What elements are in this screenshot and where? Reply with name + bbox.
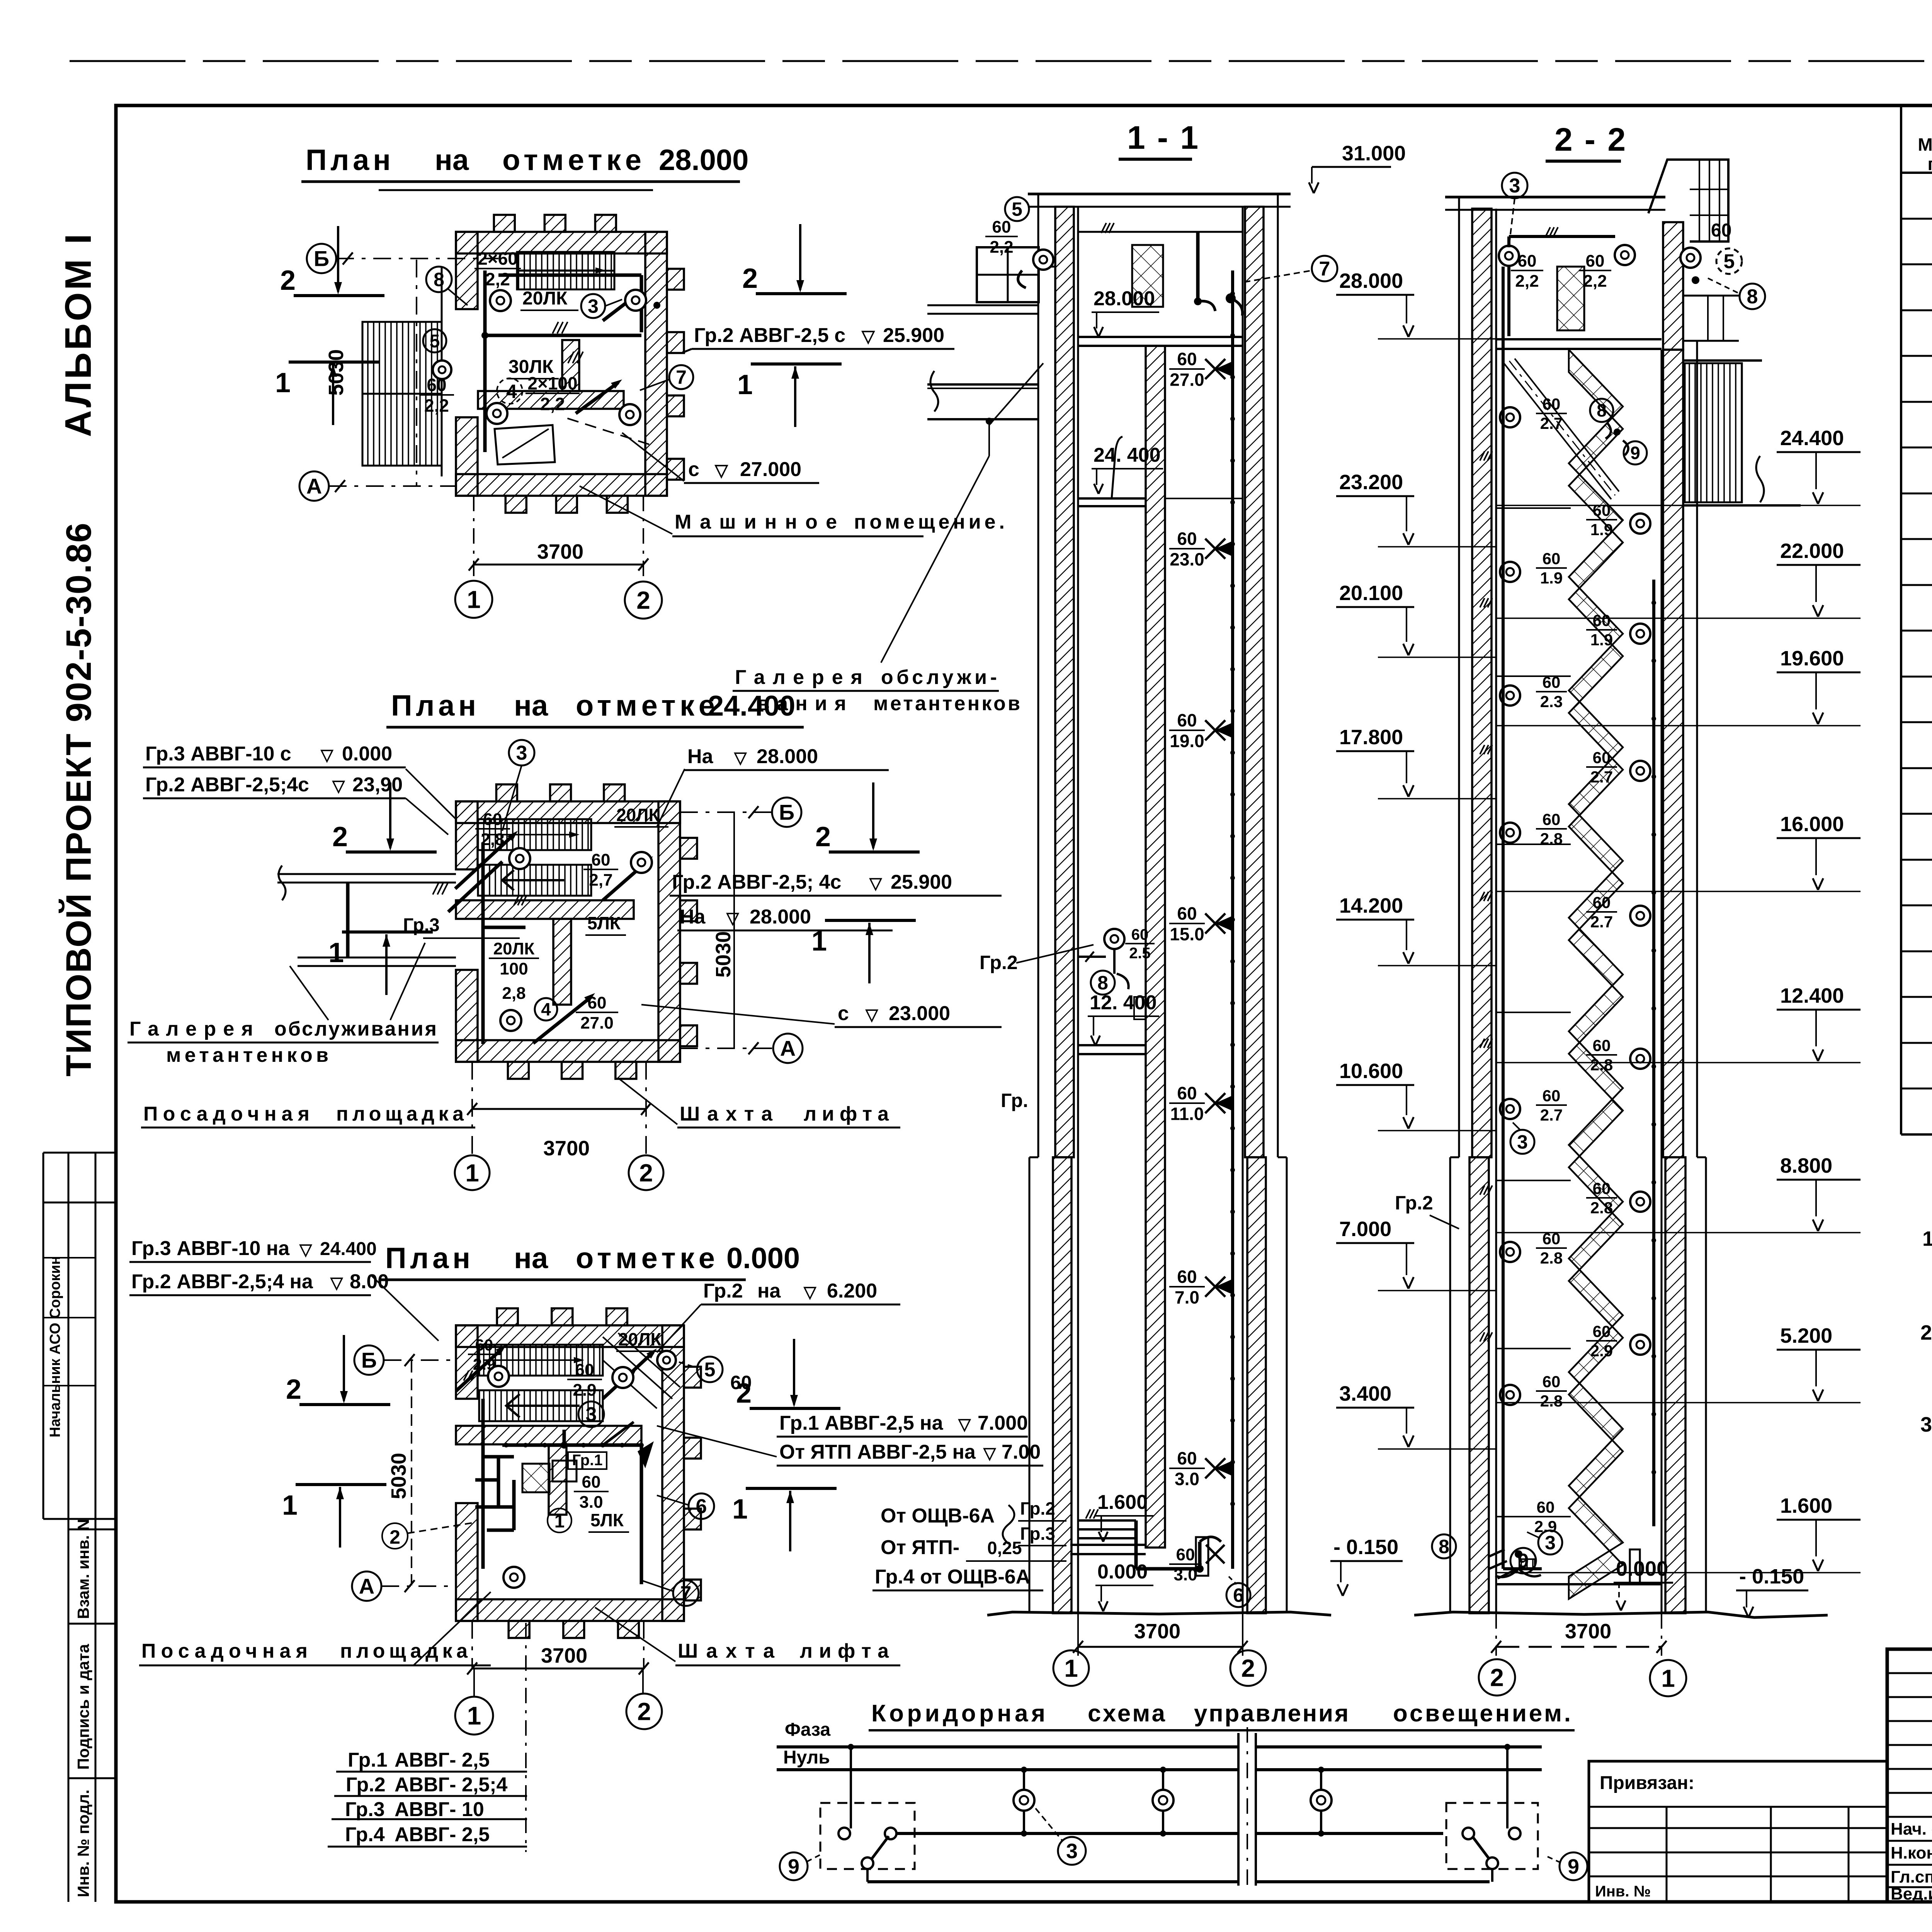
svg-text:60: 60 bbox=[992, 218, 1011, 236]
svg-text:60: 60 bbox=[1543, 1372, 1561, 1391]
svg-text:3: 3 bbox=[1517, 1131, 1528, 1153]
svg-text:60: 60 bbox=[1593, 1322, 1611, 1340]
svg-text:5030: 5030 bbox=[712, 931, 735, 978]
svg-text:Гр.: Гр. bbox=[1001, 1090, 1028, 1111]
svg-text:АВВГ- 2,5;4: АВВГ- 2,5;4 bbox=[395, 1774, 508, 1796]
svg-text:Инв. №: Инв. № bbox=[1595, 1883, 1651, 1900]
svg-text:60: 60 bbox=[588, 993, 607, 1012]
svg-text:60: 60 bbox=[1543, 673, 1561, 691]
svg-text:6.200: 6.200 bbox=[827, 1280, 877, 1302]
svg-text:25.900: 25.900 bbox=[891, 871, 952, 893]
svg-text:7.000: 7.000 bbox=[978, 1412, 1028, 1434]
svg-text:Гр.3 АВВГ-10 на: Гр.3 АВВГ-10 на bbox=[131, 1237, 290, 1260]
svg-text:2×100: 2×100 bbox=[527, 373, 577, 393]
svg-text:20ЛК: 20ЛК bbox=[493, 939, 535, 958]
svg-text:2,2: 2,2 bbox=[485, 269, 510, 289]
svg-text:10.600: 10.600 bbox=[1339, 1060, 1403, 1083]
svg-text:▽: ▽ bbox=[958, 1415, 971, 1433]
svg-text:управления: управления bbox=[1194, 1700, 1349, 1727]
svg-text:5.200: 5.200 bbox=[1780, 1324, 1832, 1347]
svg-text:2: 2 bbox=[742, 263, 758, 294]
svg-text:60: 60 bbox=[1177, 529, 1197, 549]
svg-text:0.000: 0.000 bbox=[1097, 1561, 1148, 1583]
svg-text:27.0: 27.0 bbox=[1170, 370, 1204, 390]
svg-text:Гр.2: Гр.2 bbox=[346, 1774, 386, 1796]
svg-text:2,2: 2,2 bbox=[990, 238, 1013, 257]
svg-text:2.7: 2.7 bbox=[1590, 913, 1613, 931]
svg-text:▽: ▽ bbox=[714, 461, 728, 480]
svg-text:3.400: 3.400 bbox=[1339, 1382, 1391, 1405]
svg-text:метантенков: метантенков bbox=[873, 692, 1020, 715]
svg-text:Б: Б bbox=[361, 1348, 377, 1372]
svg-text:28.000: 28.000 bbox=[1094, 287, 1155, 310]
svg-text:3.0: 3.0 bbox=[1173, 1565, 1197, 1584]
svg-text:АВВГ- 10: АВВГ- 10 bbox=[395, 1798, 484, 1821]
svg-text:2: 2 bbox=[815, 821, 831, 852]
svg-text:3700: 3700 bbox=[1565, 1620, 1611, 1643]
svg-text:7: 7 bbox=[680, 1582, 692, 1605]
svg-text:23.0: 23.0 bbox=[1170, 549, 1204, 570]
svg-text:20ЛК: 20ЛК bbox=[522, 288, 568, 309]
svg-text:3700: 3700 bbox=[543, 1137, 590, 1160]
svg-text:27.0: 27.0 bbox=[580, 1014, 614, 1032]
svg-text:19.600: 19.600 bbox=[1780, 647, 1844, 670]
svg-text:23.000: 23.000 bbox=[889, 1002, 950, 1025]
svg-text:1: 1 bbox=[467, 585, 481, 613]
svg-text:▽: ▽ bbox=[299, 1240, 313, 1259]
svg-text:2: 2 bbox=[280, 265, 296, 296]
svg-text:Взам. инв. N: Взам. инв. N bbox=[74, 1519, 92, 1619]
svg-text:22.000: 22.000 bbox=[1780, 539, 1844, 563]
svg-text:2.3: 2.3 bbox=[1540, 692, 1563, 711]
svg-text:1: 1 bbox=[737, 369, 753, 400]
svg-text:25.900: 25.900 bbox=[883, 324, 944, 347]
svg-text:1.: 1. bbox=[1922, 1227, 1932, 1250]
svg-text:2: 2 bbox=[389, 1526, 400, 1548]
svg-text:3.: 3. bbox=[1920, 1413, 1932, 1436]
svg-text:60: 60 bbox=[475, 1336, 493, 1354]
svg-text:8: 8 bbox=[1597, 400, 1607, 420]
svg-text:Привязан:: Привязан: bbox=[1600, 1773, 1694, 1793]
svg-text:2,8: 2,8 bbox=[502, 984, 526, 1003]
svg-text:12. 400: 12. 400 bbox=[1090, 992, 1157, 1014]
svg-text:14.200: 14.200 bbox=[1339, 894, 1403, 917]
svg-text:Гр.1 АВВГ-2,5 на: Гр.1 АВВГ-2,5 на bbox=[779, 1412, 944, 1434]
svg-text:2: 2 bbox=[636, 586, 650, 614]
svg-text:60: 60 bbox=[427, 375, 446, 395]
svg-text:5030: 5030 bbox=[325, 349, 348, 396]
svg-text:60: 60 bbox=[1177, 1083, 1197, 1103]
svg-text:1.9: 1.9 bbox=[1540, 569, 1563, 587]
svg-text:1: 1 bbox=[328, 937, 344, 968]
svg-text:Б: Б bbox=[779, 800, 794, 825]
svg-text:с: с bbox=[688, 458, 699, 481]
svg-text:2,2: 2,2 bbox=[540, 394, 565, 414]
svg-text:Гр.3: Гр.3 bbox=[1020, 1524, 1055, 1544]
svg-text:7: 7 bbox=[1319, 258, 1330, 280]
svg-text:60: 60 bbox=[483, 810, 502, 829]
equipment and materials table bbox=[1900, 105, 1902, 1134]
svg-text:3700: 3700 bbox=[541, 1644, 587, 1667]
svg-text:Гр.3: Гр.3 bbox=[345, 1798, 385, 1821]
svg-text:0.000: 0.000 bbox=[342, 743, 392, 765]
svg-text:5030: 5030 bbox=[387, 1453, 410, 1499]
svg-text:2: 2 bbox=[736, 1378, 752, 1409]
svg-text:АЛЬБОМ I: АЛЬБОМ I bbox=[58, 231, 99, 437]
svg-text:60: 60 bbox=[1543, 549, 1561, 568]
svg-text:▽: ▽ bbox=[726, 909, 740, 927]
svg-text:60: 60 bbox=[1593, 893, 1611, 912]
svg-text:Б: Б bbox=[314, 247, 329, 271]
svg-text:А: А bbox=[306, 474, 322, 498]
svg-text:2: 2 bbox=[286, 1374, 301, 1405]
svg-text:2.7: 2.7 bbox=[1590, 768, 1613, 786]
svg-text:Гр.2 АВВГ-2,5;4 на: Гр.2 АВВГ-2,5;4 на bbox=[131, 1270, 313, 1293]
svg-text:1.600: 1.600 bbox=[1780, 1494, 1832, 1517]
svg-text:5: 5 bbox=[704, 1359, 716, 1381]
svg-text:Гр.4: Гр.4 bbox=[345, 1823, 385, 1846]
svg-text:16.000: 16.000 bbox=[1780, 813, 1844, 836]
svg-text:- 0.150: - 0.150 bbox=[1333, 1536, 1398, 1559]
svg-text:План: План bbox=[306, 144, 391, 177]
svg-text:2 - 2: 2 - 2 bbox=[1554, 121, 1627, 158]
svg-text:2,8: 2,8 bbox=[481, 830, 504, 849]
svg-text:2.9: 2.9 bbox=[1590, 1342, 1613, 1360]
svg-text:Гр.4 от ОЩВ-6А: Гр.4 от ОЩВ-6А bbox=[875, 1566, 1030, 1588]
svg-text:60: 60 bbox=[1518, 252, 1537, 270]
svg-text:60: 60 bbox=[1593, 611, 1611, 629]
svg-text:28.000: 28.000 bbox=[757, 745, 818, 768]
svg-text:План: План bbox=[391, 689, 476, 722]
svg-text:60: 60 bbox=[1593, 1036, 1611, 1054]
svg-text:на: на bbox=[757, 1280, 781, 1302]
svg-text:60: 60 bbox=[1176, 1545, 1195, 1564]
svg-text:0.000: 0.000 bbox=[1616, 1557, 1668, 1580]
svg-text:Гл.спец.: Гл.спец. bbox=[1891, 1867, 1932, 1886]
svg-text:6: 6 bbox=[696, 1495, 707, 1518]
svg-text:От ОЩВ-6А: От ОЩВ-6А bbox=[881, 1505, 995, 1527]
svg-text:24.400: 24.400 bbox=[1780, 427, 1844, 450]
svg-text:- 0.150: - 0.150 bbox=[1739, 1565, 1804, 1588]
svg-text:60: 60 bbox=[592, 850, 611, 869]
svg-text:▽: ▽ bbox=[320, 746, 334, 764]
svg-text:8: 8 bbox=[1747, 286, 1758, 308]
svg-text:60: 60 bbox=[1177, 1448, 1197, 1468]
svg-text:поз.: поз. bbox=[1928, 154, 1932, 174]
svg-text:1: 1 bbox=[465, 1159, 479, 1187]
svg-text:Вед.инж: Вед.инж bbox=[1891, 1884, 1932, 1903]
svg-text:▽: ▽ bbox=[734, 748, 747, 767]
svg-text:Гр.1: Гр.1 bbox=[348, 1749, 388, 1771]
title block bbox=[1887, 1649, 1932, 1902]
svg-text:60: 60 bbox=[1177, 710, 1197, 730]
wire bbox=[70, 60, 1932, 62]
svg-text:на: на bbox=[514, 1242, 548, 1275]
svg-text:2: 2 bbox=[639, 1159, 653, 1187]
svg-text:2.8: 2.8 bbox=[1590, 1199, 1613, 1217]
svg-text:2.: 2. bbox=[1920, 1321, 1932, 1344]
svg-text:20ЛК: 20ЛК bbox=[618, 1329, 662, 1349]
svg-text:7.00: 7.00 bbox=[1002, 1441, 1041, 1463]
svg-text:2.7: 2.7 bbox=[1540, 414, 1563, 432]
svg-text:9: 9 bbox=[788, 1855, 799, 1878]
svg-text:24.400: 24.400 bbox=[708, 690, 795, 722]
svg-text:▽: ▽ bbox=[803, 1283, 817, 1301]
svg-text:2.5: 2.5 bbox=[1129, 945, 1151, 962]
svg-text:8.00: 8.00 bbox=[350, 1270, 389, 1293]
svg-text:7.000: 7.000 bbox=[1339, 1218, 1391, 1241]
svg-text:31.000: 31.000 bbox=[1342, 142, 1406, 165]
svg-text:1: 1 bbox=[1064, 1654, 1078, 1682]
svg-text:2.8: 2.8 bbox=[1540, 1392, 1563, 1410]
svg-text:60: 60 bbox=[1177, 903, 1197, 923]
svg-text:3: 3 bbox=[1509, 175, 1520, 197]
svg-text:2: 2 bbox=[1490, 1663, 1504, 1691]
svg-text:3: 3 bbox=[588, 296, 599, 317]
svg-text:60: 60 bbox=[1543, 395, 1561, 413]
svg-text:2.8: 2.8 bbox=[1540, 830, 1563, 848]
svg-text:2.8: 2.8 bbox=[1590, 1056, 1613, 1074]
svg-text:15.0: 15.0 bbox=[1170, 924, 1204, 944]
svg-text:1.9: 1.9 bbox=[1590, 520, 1613, 539]
svg-text:обслужи-: обслужи- bbox=[881, 666, 997, 689]
svg-text:АВВГ- 2,5: АВВГ- 2,5 bbox=[395, 1749, 490, 1771]
svg-text:схема: схема bbox=[1088, 1700, 1165, 1727]
svg-text:60: 60 bbox=[1131, 926, 1149, 943]
svg-text:3: 3 bbox=[1066, 1840, 1078, 1863]
svg-text:1: 1 bbox=[732, 1494, 748, 1525]
svg-text:24.400: 24.400 bbox=[320, 1239, 377, 1259]
svg-text:Гр.2: Гр.2 bbox=[1395, 1192, 1433, 1214]
svg-text:на: на bbox=[435, 144, 469, 177]
svg-text:2: 2 bbox=[1241, 1654, 1255, 1682]
svg-text:20ЛК: 20ЛК bbox=[616, 805, 660, 825]
svg-text:с: с bbox=[838, 1002, 849, 1025]
svg-text:2.9: 2.9 bbox=[473, 1355, 495, 1373]
svg-text:3700: 3700 bbox=[1134, 1620, 1180, 1643]
svg-text:60: 60 bbox=[1177, 1267, 1197, 1287]
svg-text:ТИПОВОЙ ПРОЕКТ 902-5-30.86: ТИПОВОЙ ПРОЕКТ 902-5-30.86 bbox=[58, 522, 99, 1077]
svg-text:2.8: 2.8 bbox=[1540, 1249, 1563, 1267]
svg-text:4: 4 bbox=[541, 999, 551, 1019]
svg-text:4: 4 bbox=[506, 381, 517, 402]
svg-text:19.0: 19.0 bbox=[1170, 731, 1204, 751]
svg-text:А: А bbox=[359, 1574, 374, 1599]
svg-text:2,2: 2,2 bbox=[1515, 272, 1539, 291]
svg-text:20.100: 20.100 bbox=[1339, 582, 1403, 605]
svg-text:5ЛК: 5ЛК bbox=[590, 1510, 624, 1530]
svg-text:23,90: 23,90 bbox=[352, 774, 403, 796]
svg-text:3.0: 3.0 bbox=[579, 1493, 603, 1512]
svg-text:5: 5 bbox=[430, 331, 440, 352]
svg-text:1: 1 bbox=[811, 926, 827, 957]
svg-text:2: 2 bbox=[637, 1697, 651, 1725]
svg-text:АВВГ- 2,5: АВВГ- 2,5 bbox=[395, 1823, 490, 1846]
svg-text:▽: ▽ bbox=[861, 327, 875, 346]
svg-text:освещением.: освещением. bbox=[1393, 1700, 1571, 1727]
svg-text:28.000: 28.000 bbox=[659, 144, 748, 177]
svg-text:60: 60 bbox=[1177, 349, 1197, 369]
svg-text:Подпись и дата: Подпись и дата bbox=[74, 1644, 92, 1770]
svg-text:8: 8 bbox=[1097, 972, 1108, 994]
svg-text:От ЯТП АВВГ-2,5 на: От ЯТП АВВГ-2,5 на bbox=[779, 1441, 976, 1463]
svg-text:От ЯТП-: От ЯТП- bbox=[881, 1536, 959, 1559]
svg-text:5: 5 bbox=[1724, 250, 1735, 273]
svg-text:3.0: 3.0 bbox=[1175, 1469, 1199, 1489]
svg-text:1: 1 bbox=[554, 1511, 565, 1532]
svg-text:0.000: 0.000 bbox=[726, 1242, 800, 1275]
svg-text:Н.контр: Н.контр bbox=[1891, 1844, 1932, 1862]
svg-text:1.9: 1.9 bbox=[1590, 631, 1613, 649]
svg-text:17.800: 17.800 bbox=[1339, 726, 1403, 749]
svg-text:100: 100 bbox=[500, 959, 528, 978]
svg-text:8.800: 8.800 bbox=[1780, 1154, 1832, 1177]
svg-text:Гр.2: Гр.2 bbox=[980, 952, 1018, 973]
svg-text:Гр.1: Гр.1 bbox=[572, 1452, 603, 1469]
svg-text:12.400: 12.400 bbox=[1780, 984, 1844, 1007]
svg-text:План: План bbox=[385, 1242, 470, 1275]
svg-text:Начальник АСО Сорокин: Начальник АСО Сорокин bbox=[47, 1256, 63, 1437]
svg-text:На: На bbox=[687, 745, 714, 768]
svg-text:Гр.2: Гр.2 bbox=[1020, 1498, 1055, 1519]
svg-text:24. 400: 24. 400 bbox=[1094, 444, 1161, 466]
svg-text:7: 7 bbox=[676, 367, 687, 388]
svg-text:площадка: площадка bbox=[336, 1103, 464, 1125]
svg-text:2: 2 bbox=[332, 821, 348, 852]
svg-text:на: на bbox=[514, 689, 548, 722]
svg-text:метантенков: метантенков bbox=[166, 1044, 328, 1066]
svg-text:Гр.2: Гр.2 bbox=[703, 1280, 743, 1302]
svg-text:60: 60 bbox=[1593, 1179, 1611, 1197]
svg-text:Нач. отд: Нач. отд bbox=[1891, 1820, 1932, 1838]
svg-text:Гр.3 АВВГ-10 с: Гр.3 АВВГ-10 с bbox=[145, 743, 291, 765]
left sidebar stamp columns bbox=[43, 1153, 44, 1519]
svg-text:27.000: 27.000 bbox=[740, 458, 801, 481]
svg-text:Марка: Марка bbox=[1918, 134, 1932, 155]
svg-text:▽: ▽ bbox=[865, 1005, 879, 1024]
svg-text:60: 60 bbox=[575, 1361, 594, 1379]
svg-text:Нуль: Нуль bbox=[783, 1747, 830, 1768]
svg-text:▽: ▽ bbox=[332, 777, 345, 795]
svg-text:2,2: 2,2 bbox=[1583, 272, 1607, 291]
svg-text:60: 60 bbox=[1711, 220, 1731, 241]
svg-text:60: 60 bbox=[1537, 1498, 1555, 1516]
svg-text:2.7: 2.7 bbox=[1540, 1106, 1563, 1124]
svg-text:28.000: 28.000 bbox=[1339, 269, 1403, 293]
svg-text:Инв. № подл.: Инв. № подл. bbox=[74, 1789, 92, 1897]
svg-text:8: 8 bbox=[1439, 1536, 1449, 1558]
svg-text:5: 5 bbox=[1012, 199, 1022, 220]
svg-text:▽: ▽ bbox=[983, 1444, 997, 1462]
svg-text:1: 1 bbox=[467, 1701, 481, 1730]
svg-text:2,2: 2,2 bbox=[424, 396, 449, 416]
svg-text:Гр.2 АВВГ-2,5 с: Гр.2 АВВГ-2,5 с bbox=[694, 324, 845, 347]
svg-text:Гр.2 АВВГ-2,5;4с: Гр.2 АВВГ-2,5;4с bbox=[145, 774, 309, 796]
svg-text:9: 9 bbox=[1630, 443, 1640, 463]
svg-text:60: 60 bbox=[582, 1473, 601, 1492]
svg-text:обслуживания: обслуживания bbox=[274, 1018, 437, 1040]
svg-text:11.0: 11.0 bbox=[1170, 1104, 1204, 1124]
svg-text:3: 3 bbox=[1545, 1532, 1556, 1554]
svg-text:8: 8 bbox=[434, 269, 444, 291]
svg-text:28.000: 28.000 bbox=[750, 906, 811, 928]
svg-text:3: 3 bbox=[586, 1403, 597, 1426]
svg-text:60: 60 bbox=[1586, 252, 1605, 270]
svg-text:1: 1 bbox=[282, 1490, 298, 1521]
svg-text:3: 3 bbox=[516, 742, 527, 764]
svg-text:площадка: площадка bbox=[340, 1640, 468, 1662]
svg-text:1: 1 bbox=[275, 367, 291, 398]
svg-text:5ЛК: 5ЛК bbox=[587, 913, 621, 933]
svg-text:1 - 1: 1 - 1 bbox=[1127, 119, 1200, 156]
svg-text:7.0: 7.0 bbox=[1175, 1287, 1199, 1308]
svg-text:0,25: 0,25 bbox=[987, 1538, 1022, 1558]
svg-text:23.200: 23.200 bbox=[1339, 471, 1403, 494]
svg-text:60: 60 bbox=[1543, 810, 1561, 828]
svg-text:1.600: 1.600 bbox=[1097, 1491, 1148, 1514]
svg-text:А: А bbox=[780, 1036, 796, 1061]
svg-text:Гр.2 АВВГ-2,5; 4с: Гр.2 АВВГ-2,5; 4с bbox=[672, 871, 841, 893]
svg-text:6: 6 bbox=[1233, 1585, 1244, 1606]
svg-text:1: 1 bbox=[1661, 1664, 1675, 1692]
svg-text:60: 60 bbox=[1593, 501, 1611, 519]
svg-text:▽: ▽ bbox=[869, 874, 883, 892]
svg-text:На: На bbox=[680, 906, 706, 928]
svg-text:60: 60 bbox=[1593, 748, 1611, 767]
svg-text:▽: ▽ bbox=[330, 1274, 344, 1292]
svg-text:Фаза: Фаза bbox=[785, 1719, 830, 1740]
svg-text:9: 9 bbox=[1568, 1855, 1579, 1878]
svg-text:60: 60 bbox=[1543, 1087, 1561, 1105]
svg-text:2.9: 2.9 bbox=[573, 1381, 596, 1400]
svg-text:3700: 3700 bbox=[537, 540, 583, 563]
svg-text:2,7: 2,7 bbox=[589, 871, 612, 889]
